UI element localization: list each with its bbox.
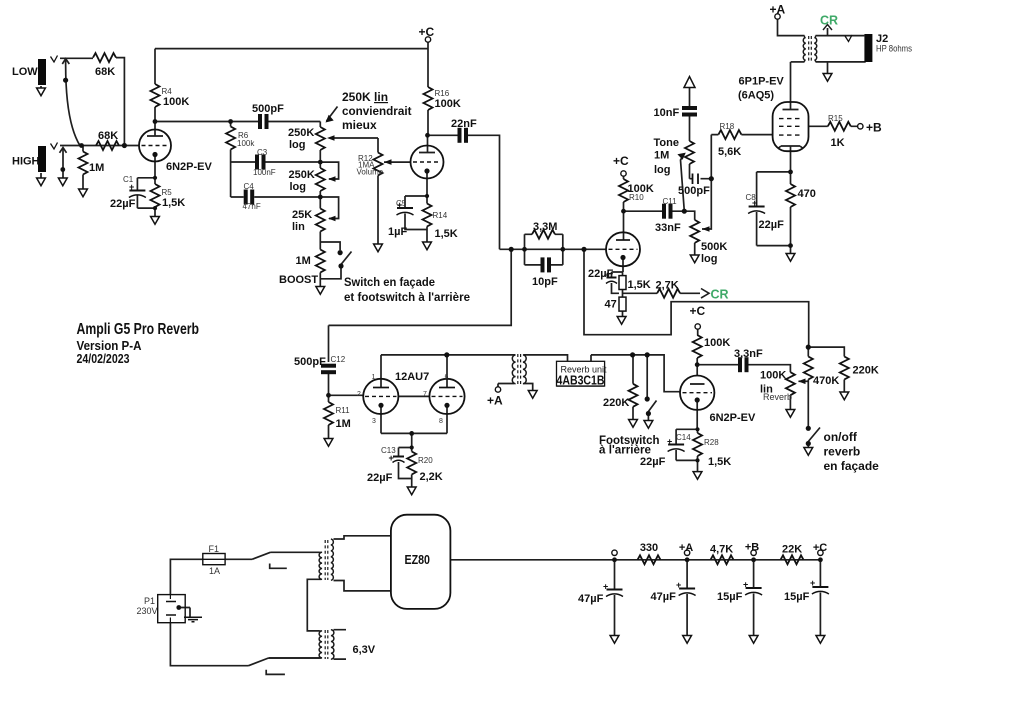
svg-text:+: +: [397, 200, 402, 210]
svg-text:R11: R11: [336, 406, 351, 415]
svg-text:22µF: 22µF: [640, 456, 666, 468]
svg-text:500pF: 500pF: [252, 103, 284, 115]
svg-text:mieux: mieux: [342, 118, 377, 132]
svg-text:R15: R15: [828, 114, 843, 123]
svg-text:1M: 1M: [89, 162, 104, 174]
svg-text:log: log: [701, 253, 718, 265]
svg-text:+B: +B: [745, 542, 759, 554]
svg-text:1A: 1A: [209, 566, 220, 576]
svg-text:+C: +C: [690, 304, 706, 318]
svg-text:CR: CR: [711, 288, 729, 302]
svg-text:R18: R18: [720, 122, 735, 131]
svg-text:250K: 250K: [288, 127, 314, 139]
svg-text:470: 470: [798, 188, 816, 200]
svg-text:C4: C4: [244, 182, 255, 191]
svg-text:6,3V: 6,3V: [353, 644, 376, 656]
svg-text:+C: +C: [419, 25, 435, 39]
svg-text:3,3M: 3,3M: [533, 221, 557, 233]
svg-text:HIGH: HIGH: [12, 156, 40, 168]
svg-text:R4: R4: [162, 87, 173, 96]
svg-text:+: +: [667, 437, 672, 447]
svg-text:6: 6: [445, 374, 449, 381]
svg-text:R5: R5: [162, 188, 173, 197]
svg-text:100K: 100K: [435, 98, 461, 110]
svg-text:reverb: reverb: [824, 445, 861, 459]
svg-text:+: +: [605, 270, 610, 280]
svg-text:1,5K: 1,5K: [435, 228, 458, 240]
svg-text:33nF: 33nF: [655, 222, 681, 234]
svg-text:+C: +C: [613, 154, 629, 168]
svg-text:500K: 500K: [701, 241, 727, 253]
svg-text:1,5K: 1,5K: [162, 197, 185, 209]
svg-text:conviendrait: conviendrait: [342, 104, 412, 118]
svg-text:6N2P-EV: 6N2P-EV: [710, 412, 757, 424]
svg-text:log: log: [290, 181, 307, 193]
svg-text:8: 8: [439, 418, 443, 425]
svg-text:220K: 220K: [853, 365, 879, 377]
svg-text:4,7K: 4,7K: [710, 544, 733, 556]
svg-text:en façade: en façade: [824, 459, 880, 473]
svg-text:1µF: 1µF: [388, 226, 407, 238]
svg-text:6N2P-EV: 6N2P-EV: [166, 161, 213, 173]
svg-text:+: +: [752, 198, 757, 208]
svg-text:1K: 1K: [831, 137, 845, 149]
svg-text:C14: C14: [676, 433, 691, 442]
svg-text:P1: P1: [144, 596, 155, 606]
svg-text:22µF: 22µF: [759, 219, 785, 231]
svg-text:47: 47: [605, 299, 617, 311]
svg-text:+: +: [129, 182, 134, 192]
svg-text:12AU7: 12AU7: [395, 371, 429, 383]
svg-text:Ampli G5 Pro Reverb: Ampli G5 Pro Reverb: [77, 321, 200, 338]
svg-text:68K: 68K: [95, 66, 115, 78]
svg-text:500pF: 500pF: [294, 356, 326, 368]
svg-text:C12: C12: [331, 355, 346, 364]
svg-text:47µF: 47µF: [578, 593, 604, 605]
svg-text:HP 8ohms: HP 8ohms: [876, 44, 912, 54]
svg-text:22K: 22K: [782, 544, 802, 556]
svg-text:R14: R14: [433, 211, 448, 220]
svg-text:LOW: LOW: [12, 66, 38, 78]
svg-text:47nF: 47nF: [243, 202, 261, 211]
svg-text:1M: 1M: [296, 255, 311, 267]
svg-text:EZ80: EZ80: [405, 553, 431, 567]
svg-text:250K lin: 250K lin: [342, 90, 388, 104]
svg-text:330: 330: [640, 542, 658, 554]
svg-text:et footswitch à l'arrière: et footswitch à l'arrière: [344, 290, 470, 304]
svg-text:5,6K: 5,6K: [718, 146, 741, 158]
svg-text:10nF: 10nF: [654, 107, 680, 119]
svg-text:Tone: Tone: [654, 137, 679, 149]
svg-text:log: log: [654, 164, 671, 176]
svg-text:+: +: [810, 578, 815, 588]
svg-text:3,3nF: 3,3nF: [734, 348, 763, 360]
svg-text:47µF: 47µF: [651, 591, 677, 603]
svg-text:C11: C11: [663, 197, 678, 206]
svg-text:470K: 470K: [813, 375, 839, 387]
svg-text:22µF: 22µF: [367, 472, 393, 484]
svg-text:1M: 1M: [336, 418, 351, 430]
svg-text:22nF: 22nF: [451, 118, 477, 130]
svg-text:R10: R10: [629, 193, 644, 202]
svg-text:100K: 100K: [760, 370, 786, 382]
svg-text:6P1P-EV: 6P1P-EV: [739, 75, 785, 87]
svg-text:100K: 100K: [704, 337, 730, 349]
svg-text:CR: CR: [820, 14, 838, 28]
svg-text:R28: R28: [704, 438, 719, 447]
svg-text:24/02/2023: 24/02/2023: [77, 351, 130, 366]
svg-text:lin: lin: [292, 221, 305, 233]
svg-text:Volume: Volume: [357, 168, 384, 177]
svg-text:22µF: 22µF: [110, 198, 136, 210]
svg-text:68K: 68K: [98, 130, 118, 142]
svg-text:R20: R20: [418, 456, 433, 465]
svg-text:+: +: [676, 580, 681, 590]
svg-text:100nF: 100nF: [253, 168, 276, 177]
svg-text:7: 7: [423, 391, 427, 398]
svg-text:+: +: [743, 580, 748, 590]
svg-text:230V: 230V: [137, 606, 158, 616]
svg-text:100k: 100k: [237, 139, 255, 148]
svg-text:1: 1: [372, 374, 376, 381]
svg-text:2: 2: [357, 391, 361, 398]
svg-text:2,7K: 2,7K: [656, 280, 679, 292]
svg-text:Switch en façade: Switch en façade: [344, 275, 435, 289]
svg-text:à l'arrière: à l'arrière: [599, 443, 651, 457]
svg-text:15µF: 15µF: [784, 591, 810, 603]
svg-text:(6AQ5): (6AQ5): [738, 89, 774, 101]
svg-text:25K: 25K: [292, 209, 312, 221]
svg-text:+A: +A: [679, 542, 693, 554]
svg-text:log: log: [289, 139, 306, 151]
svg-text:+B: +B: [866, 121, 882, 135]
svg-text:BOOST: BOOST: [279, 274, 318, 286]
svg-text:+A: +A: [770, 3, 786, 17]
svg-text:2,2K: 2,2K: [420, 471, 443, 483]
svg-text:+: +: [389, 453, 394, 463]
svg-text:500pF: 500pF: [678, 185, 710, 197]
svg-text:C3: C3: [257, 148, 268, 157]
svg-text:220K: 220K: [603, 397, 629, 409]
svg-text:10pF: 10pF: [532, 276, 558, 288]
svg-text:1,5K: 1,5K: [628, 279, 651, 291]
svg-text:4AB3C1B: 4AB3C1B: [557, 374, 605, 388]
svg-text:1M: 1M: [654, 150, 669, 162]
svg-text:+: +: [603, 582, 608, 592]
svg-text:100K: 100K: [163, 96, 189, 108]
svg-text:R16: R16: [435, 89, 450, 98]
svg-text:3: 3: [372, 418, 376, 425]
svg-text:on/off: on/off: [824, 430, 858, 444]
svg-text:250K: 250K: [289, 169, 315, 181]
svg-text:Reverb: Reverb: [763, 392, 792, 402]
svg-text:+A: +A: [487, 394, 503, 408]
svg-text:+C: +C: [813, 542, 827, 554]
svg-text:1,5K: 1,5K: [708, 456, 731, 468]
svg-text:15µF: 15µF: [717, 591, 743, 603]
svg-text:F1: F1: [209, 544, 220, 554]
